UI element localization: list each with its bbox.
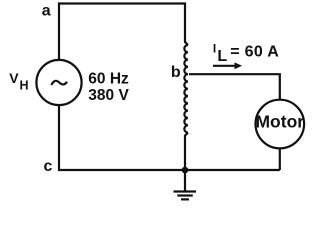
svg-text:60 Hz: 60 Hz <box>88 71 129 88</box>
svg-text:a: a <box>42 3 51 20</box>
svg-text:V: V <box>9 70 19 86</box>
svg-text:380 V: 380 V <box>88 87 129 104</box>
svg-text:Motor: Motor <box>255 111 304 131</box>
svg-text:I: I <box>213 42 216 56</box>
svg-text:H: H <box>20 78 29 92</box>
svg-text:L: L <box>217 48 227 65</box>
svg-text:b: b <box>171 64 181 81</box>
svg-text:= 60 A: = 60 A <box>230 44 279 61</box>
svg-text:c: c <box>44 158 53 175</box>
